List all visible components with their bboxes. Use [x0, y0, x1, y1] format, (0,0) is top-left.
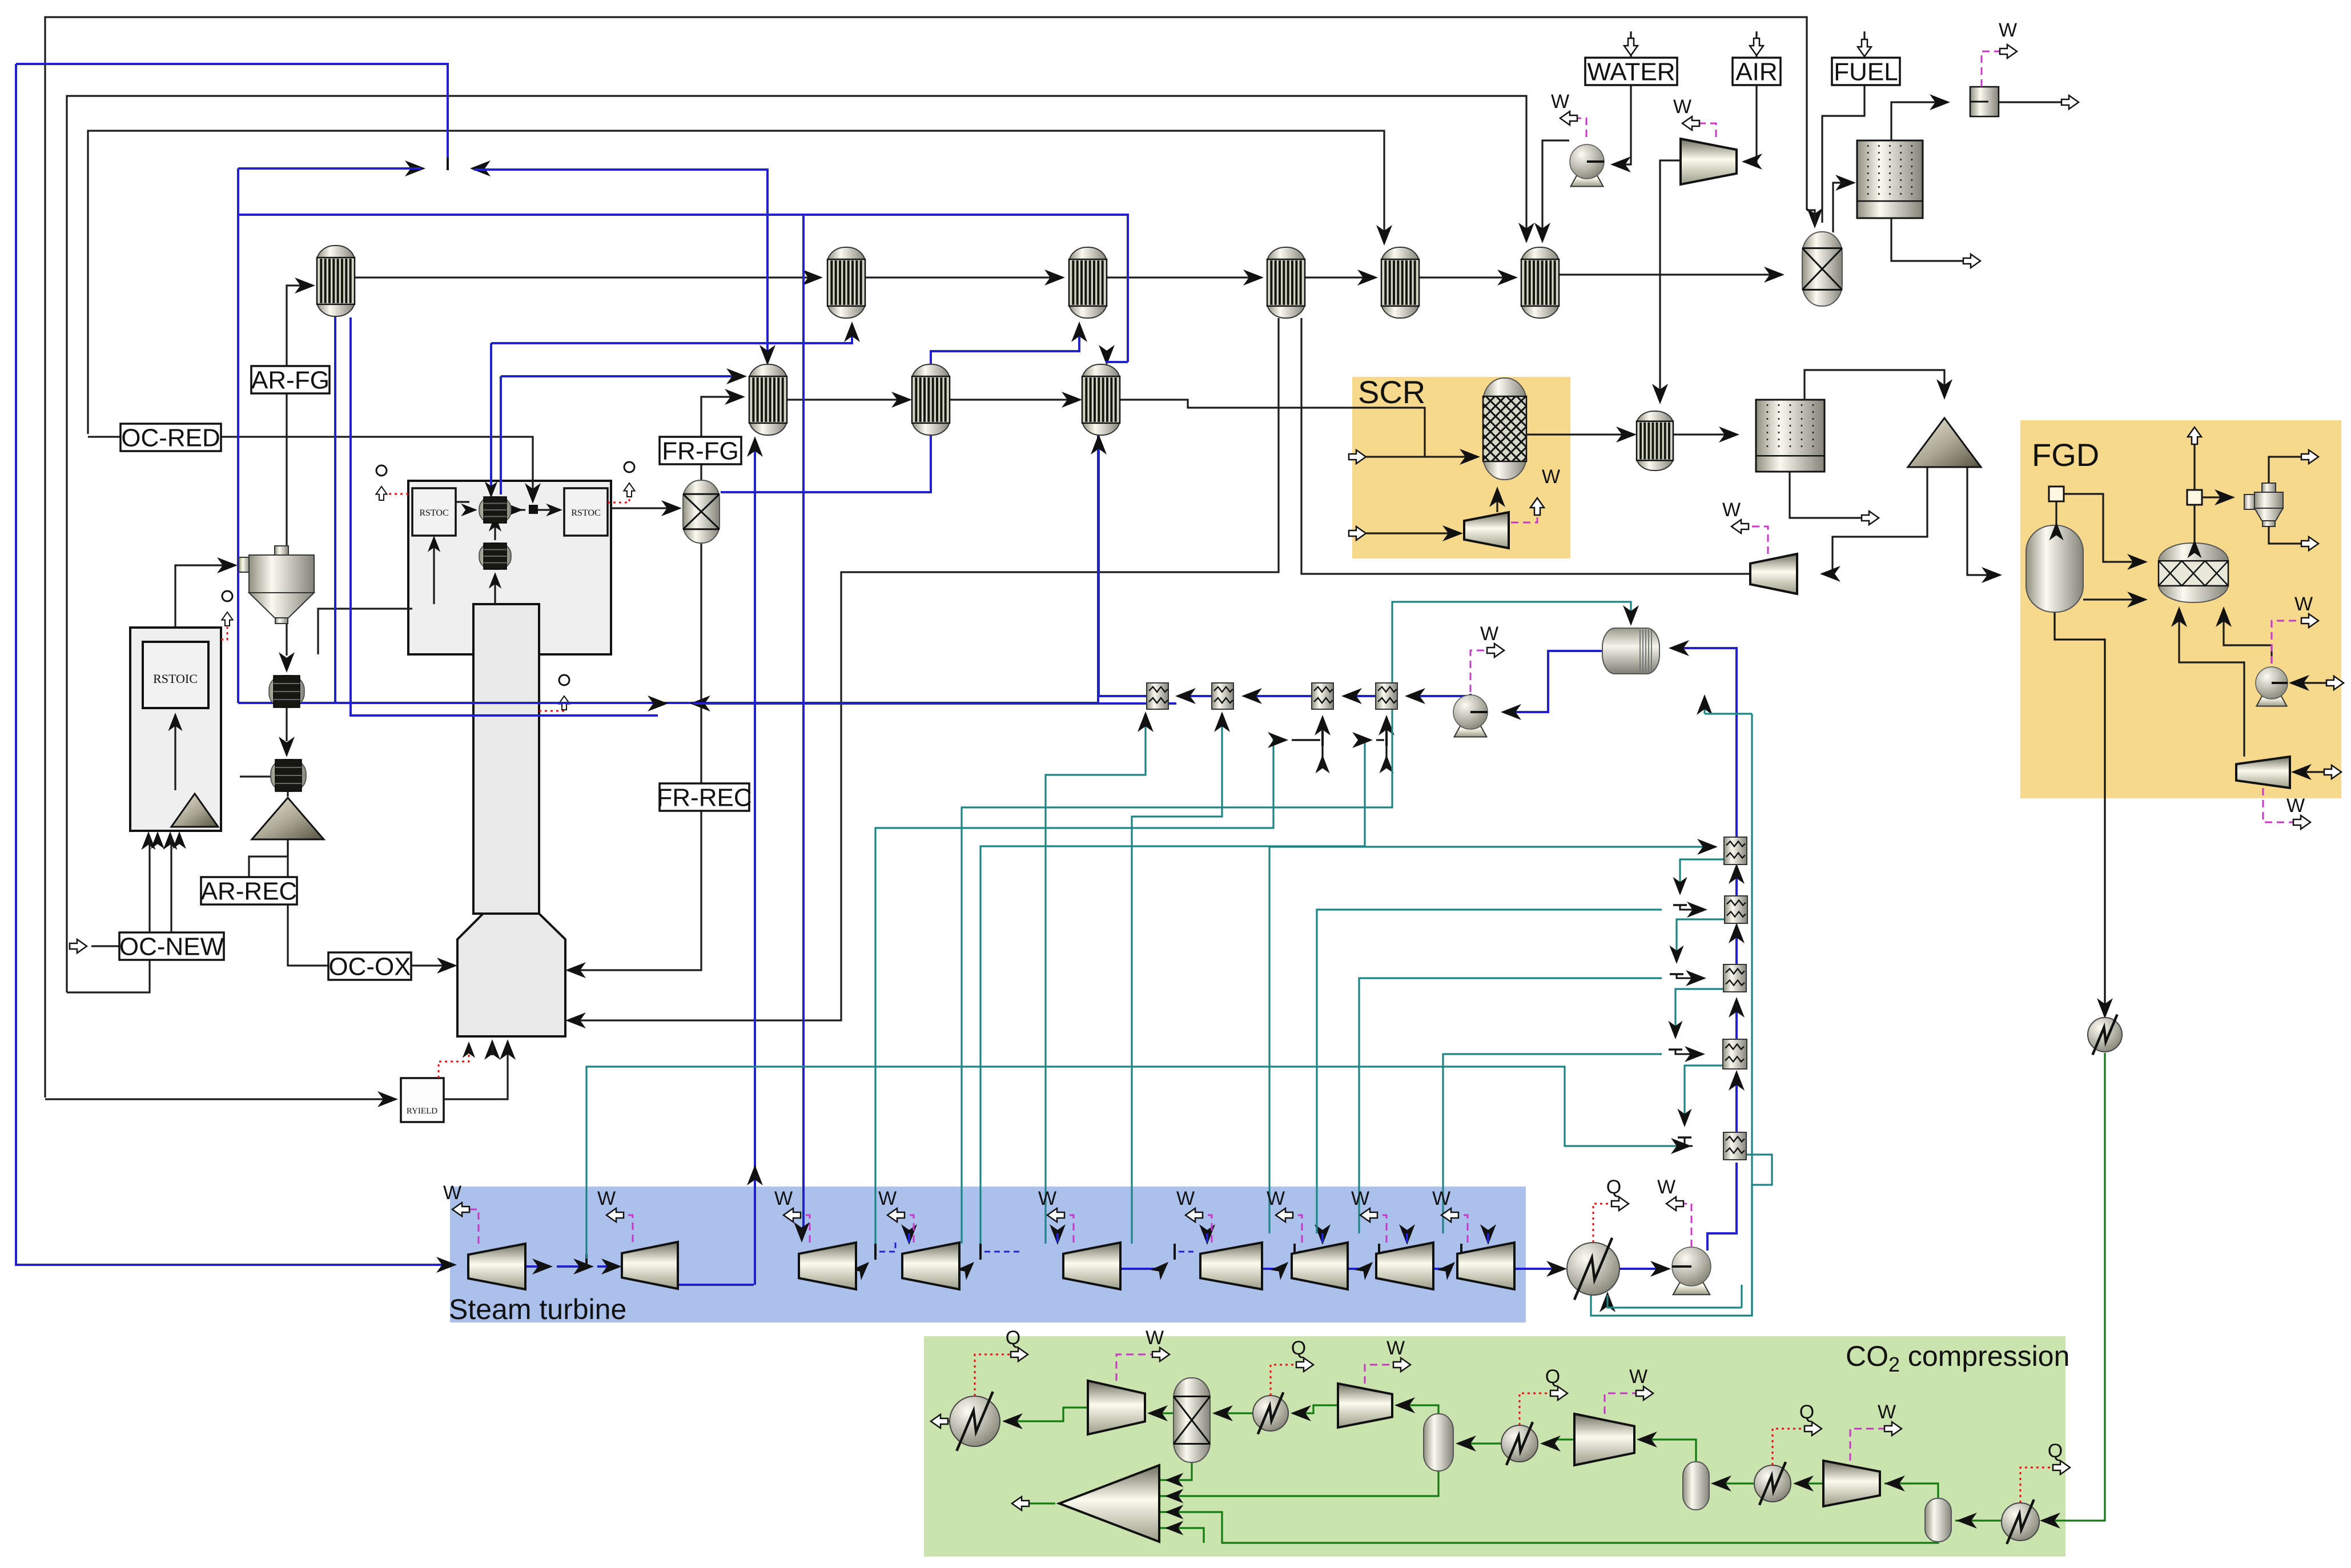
wire HX B1 bottom riser from T2	[754, 440, 756, 1285]
W CO2 compB	[1365, 1365, 1408, 1384]
teal drain fwhE to condenser loop	[1591, 1155, 1772, 1316]
wire condensate through LP heaters	[1409, 695, 1454, 697]
svg-text:W: W	[1673, 96, 1691, 118]
svg-text:CO2 compression: CO2 compression	[1846, 1340, 2069, 1376]
W indicator water pump	[1562, 118, 1586, 137]
wire HX A6 to fuel mixer vessel	[1559, 274, 1781, 275]
HP feedwater heater A	[1724, 837, 1747, 865]
svg-text:WATER: WATER	[1588, 58, 1675, 86]
wire B3 flue out to SCR reactor	[1120, 400, 1425, 457]
wire FR riser to reheater B1 upper inlet	[501, 375, 742, 377]
wire HX A4 bottom to FR recycle	[570, 318, 1279, 1020]
steam turbine T7	[1292, 1243, 1348, 1289]
CO2 multistage vent compressor	[1059, 1465, 1159, 1542]
svg-text:W: W	[1176, 1188, 1195, 1209]
FGD absorber top line	[2055, 501, 2057, 525]
Q CO2 cooler4	[1773, 1429, 1819, 1465]
coal mill cylinder	[1857, 140, 1923, 218]
svg-text:AIR: AIR	[1735, 58, 1777, 86]
CO2 cooler 2	[1253, 1392, 1288, 1434]
LP feedwater heater 4	[1376, 683, 1397, 709]
wire T3-T4 link	[856, 1268, 866, 1270]
svg-text:RYIELD: RYIELD	[407, 1107, 437, 1116]
wire AR flue through HX row	[355, 276, 818, 278]
CO2 KO drum 4	[1925, 1498, 1951, 1542]
feedwater pump	[1453, 695, 1488, 737]
steam turbine T4	[902, 1243, 959, 1289]
ESP cylinder	[1756, 400, 1824, 472]
wire cone left leg to ID fan	[1823, 467, 1927, 574]
svg-text:Steam turbine: Steam turbine	[449, 1293, 626, 1325]
wire blue y376 steam line	[238, 215, 1128, 362]
wire blue valve on 1232 line	[648, 695, 668, 711]
heat exchanger HX-B1 reheater	[749, 364, 787, 435]
wire RSTOC-L bottom feed	[433, 539, 435, 604]
green MCOMPR side lines	[1159, 1462, 1192, 1480]
wire mill bottom dust out	[1891, 218, 1969, 261]
wire cyclone inlet from AR top	[175, 565, 233, 628]
teal extraction to fwh2	[1132, 714, 1222, 1244]
W CO2 compD	[1850, 1429, 1899, 1461]
svg-text:W: W	[1657, 1176, 1675, 1198]
wire FR-FG vessel feed blues	[490, 343, 492, 494]
steam turbine T1	[468, 1244, 525, 1289]
AR RSTOIC box	[143, 642, 208, 708]
CO2 compressor B	[1338, 1384, 1392, 1428]
steam turbine T6	[1200, 1243, 1262, 1289]
teal extraction to HP fwhA	[1269, 847, 1713, 1233]
mini exchanger D3 in FR group	[479, 497, 511, 523]
FGD cyclone top out	[2269, 457, 2307, 483]
steam turbine T2	[622, 1242, 678, 1289]
teal extraction to fwh3 junction	[875, 740, 1284, 1244]
Q CO2 cooler2	[1271, 1365, 1311, 1396]
mini exchanger D4 in FR group	[479, 543, 511, 569]
HP feedwater heater E	[1723, 1132, 1746, 1160]
feedwater pump W	[1470, 650, 1502, 692]
teal extraction to HP fwhC	[1359, 978, 1662, 1233]
wire T8-T9 link	[1433, 1268, 1452, 1270]
wire mill top to crusher box	[1891, 102, 1946, 140]
wire k4 to HX A5	[88, 131, 1384, 434]
wire AR q indicator	[221, 627, 227, 640]
label box OC-RED	[120, 424, 221, 451]
svg-text:FR-REC: FR-REC	[657, 783, 751, 811]
label box AR-REC	[201, 877, 297, 904]
wire cond pump discharge to LP heaters stack	[1707, 1163, 1737, 1251]
green compA to cooler1	[1004, 1408, 1088, 1421]
wire k3 char recycle	[67, 96, 1526, 992]
svg-text:AR-REC: AR-REC	[201, 877, 298, 905]
FR RSTOIC box right	[564, 488, 608, 536]
W indicator ID fan	[1734, 526, 1768, 554]
wire FR column q1	[539, 710, 564, 712]
wire ESP top to splitter cone	[1805, 370, 1944, 400]
svg-text:W: W	[1722, 499, 1741, 521]
wire air compressor discharge to SCR HX	[1660, 160, 1681, 400]
wire AIR line	[1745, 83, 1757, 162]
FGD absorber side to oxidizer	[2083, 598, 2143, 600]
FGD sq2 to small cyclone	[2202, 496, 2231, 498]
FGD oxidizer feed square	[2187, 490, 2202, 505]
wire FR column top to hxdark2	[494, 576, 496, 604]
svg-text:W: W	[1146, 1327, 1164, 1349]
svg-text:W: W	[878, 1188, 897, 1209]
FGD highlighted region	[2020, 420, 2341, 798]
label box OC-OX	[328, 952, 411, 980]
svg-text:FUEL: FUEL	[1834, 58, 1898, 86]
svg-text:FGD: FGD	[2032, 437, 2099, 473]
teal extraction to fwh4 junction	[980, 740, 1368, 1244]
svg-text:RSTOIC: RSTOIC	[153, 672, 198, 686]
SCR reactor outlet to HX	[1526, 433, 1632, 435]
wire SCR HX to ESP	[1673, 433, 1735, 435]
wire T9 to condenser	[1514, 1268, 1562, 1270]
Q and W condenser	[1593, 1204, 1626, 1243]
FGD slurry pump	[2256, 667, 2288, 706]
wire B1 to B2	[787, 399, 907, 400]
svg-text:Q: Q	[1291, 1337, 1306, 1359]
wire AR-REC label to cone	[249, 842, 288, 877]
steam turbine T9	[1457, 1243, 1514, 1289]
wire AR-FG riser	[286, 392, 287, 555]
green MCOMPR outlet	[1022, 1502, 1055, 1504]
FGD fan inlet	[2294, 771, 2333, 773]
RYIELD decomposition box	[401, 1078, 444, 1122]
wire FUEL line	[1822, 85, 1864, 223]
label box AIR	[1733, 58, 1781, 85]
HP feedwater heater C	[1723, 964, 1746, 992]
HP feedwater heater D	[1723, 1039, 1747, 1069]
svg-text:W: W	[774, 1188, 793, 1209]
CO2 KO drum 2	[1424, 1414, 1453, 1471]
heat exchanger after air compressor	[1637, 411, 1673, 471]
wire ESP bottom ash out	[1790, 472, 1867, 518]
W indicator crusher	[1982, 51, 2008, 87]
green compD to cooler4	[1795, 1482, 1823, 1484]
FUEL source arrow	[1863, 31, 1865, 59]
FGD fan discharge to oxidizer	[2179, 610, 2244, 757]
flue gas splitter cone	[1908, 418, 1981, 467]
FR bottom wide section	[457, 914, 565, 1036]
FGD pump inlet	[2292, 682, 2336, 684]
svg-text:W: W	[443, 1182, 461, 1204]
wire FR-REC line	[570, 805, 701, 970]
Steam turbine highlighted region	[450, 1187, 1526, 1322]
svg-text:W: W	[1480, 623, 1498, 645]
svg-text:W: W	[1878, 1401, 1896, 1423]
green cooler5 to KO drum4	[1955, 1519, 2002, 1521]
green cooler1 outlet	[941, 1420, 950, 1422]
CO2 cooler 5	[2002, 1499, 2039, 1544]
heat exchanger HX-A5	[1381, 247, 1419, 318]
heat exchanger HX-B2	[912, 364, 950, 435]
arrows into AR bottom	[141, 831, 155, 850]
steam mixer junction	[447, 158, 449, 170]
wire economizer down leg	[238, 407, 1098, 703]
FR riser column	[473, 604, 539, 914]
teal drains in HP stack	[1680, 859, 1725, 891]
wire cyclone bottom chain	[286, 621, 287, 656]
green compB to cooler2	[1293, 1405, 1338, 1413]
wire steam drum blue down from HX B2	[721, 435, 931, 492]
AR reactor group box	[130, 628, 221, 831]
crusher box	[1970, 87, 1999, 116]
teal fwh4 junction tee	[1385, 731, 1388, 746]
W indicator SCR blower	[1511, 502, 1537, 522]
condensate pump	[1672, 1247, 1711, 1294]
teal fwh3 junction tee	[1321, 731, 1324, 746]
wire T3 inlet drop	[801, 1228, 803, 1238]
steam turbine T8	[1376, 1243, 1433, 1289]
wire k3 AR branch	[67, 836, 150, 992]
svg-text:W: W	[1387, 1337, 1405, 1359]
SCR reactor vessel	[1483, 378, 1526, 480]
wire T4-T5 link	[959, 1268, 971, 1270]
ID fan	[1750, 554, 1797, 594]
SCR blower discharge to reactor	[1496, 492, 1498, 512]
WATER source arrow	[1630, 31, 1631, 58]
CO2 cooler 3	[1501, 1422, 1538, 1465]
W cond pump	[1669, 1204, 1691, 1247]
wire main steam to T1	[16, 64, 448, 158]
air booster compressor	[1681, 139, 1737, 184]
green FGD drain down to CO2 train	[2055, 612, 2105, 1015]
steam turbine T5	[1063, 1243, 1120, 1289]
wire OC-OX to FR	[411, 964, 453, 966]
svg-text:W: W	[1542, 466, 1560, 488]
wire condenser to cond pump	[1619, 1268, 1666, 1270]
wire water pump to HX A6 top	[1542, 140, 1569, 240]
FGD fan	[2236, 757, 2290, 788]
heat exchanger HX-A6	[1521, 247, 1559, 318]
CO2 compression highlighted region	[924, 1336, 2065, 1557]
teal condenser bottom arrow	[1600, 1292, 1615, 1312]
wire hot reheat down to T3	[802, 215, 803, 1228]
wire AR-REC cone top to AR box	[240, 777, 288, 797]
green cooler2 to dryer	[1215, 1412, 1253, 1414]
svg-text:Q: Q	[1799, 1401, 1814, 1423]
AR internal riser	[174, 716, 176, 790]
heat exchanger HX-B3 economizer	[1082, 364, 1120, 435]
label box OC-NEW	[119, 932, 224, 960]
FGD oxidizer top to sq2	[2193, 505, 2195, 543]
wire blue loop x614	[351, 317, 658, 715]
wire FR-FG up to reheater B1	[701, 397, 741, 437]
label box WATER	[1585, 58, 1677, 85]
wire RYIELD feed k2	[45, 1098, 394, 1100]
CO2 cooler 4	[1754, 1462, 1791, 1505]
wire OC-NEW to AR	[170, 836, 172, 932]
SCR inlet stream 2	[1349, 526, 1366, 540]
wire RYIELD to FR	[444, 1042, 508, 1099]
heat exchanger HX-A4	[1267, 247, 1305, 318]
wire blue loop x587 from HX A1 bottom	[334, 315, 336, 703]
FR reactor group box	[408, 481, 611, 654]
CO2 cooler 1	[950, 1392, 1000, 1451]
steam turbine T3	[799, 1243, 856, 1289]
wire RSTOC-L to hxdark	[456, 501, 469, 502]
green v4 to compressor D	[1884, 1483, 1938, 1499]
wire FR q indicator	[381, 494, 408, 501]
label box FR-FG	[660, 437, 741, 464]
wire B2 to B3	[950, 399, 1078, 400]
teal up into deaerator bottom	[1703, 698, 1705, 714]
wire RYIELD q	[439, 1045, 469, 1078]
heat exchanger HX-A1 AR flue gas cooler	[317, 246, 355, 316]
wire T6-T7 link	[1262, 1268, 1285, 1270]
wire FR group to FR-FG vessel	[611, 507, 678, 509]
Q CO2 cooler5	[2020, 1468, 2068, 1503]
FGD pump discharge to oxidizer	[2224, 610, 2272, 664]
Q CO2 cooler3	[1520, 1393, 1565, 1425]
green compC to cooler3	[1542, 1440, 1574, 1444]
svg-text:Q: Q	[1006, 1327, 1020, 1349]
wire FR bottom arrows	[484, 1039, 500, 1060]
wire mixer right arm from reheater	[474, 170, 767, 362]
W indicator air compressor	[1685, 123, 1716, 137]
CO2 compressor C	[1574, 1414, 1634, 1465]
AR internal cone mixer	[171, 794, 218, 827]
CO2 dryer vessel with X	[1174, 1378, 1210, 1462]
wire T7-T8 link	[1348, 1268, 1369, 1270]
condenser	[1567, 1238, 1619, 1300]
wire FR cluster small square	[529, 505, 538, 514]
svg-text:Q: Q	[1545, 1366, 1560, 1388]
LP feedwater heater 1	[1147, 683, 1168, 709]
wire blue from B2 top riser	[931, 325, 1079, 365]
label box FUEL	[1832, 58, 1900, 85]
FGD oxidizer vessel	[2159, 543, 2228, 602]
wire mixer vessel top to mill	[1833, 183, 1852, 232]
HP feedwater heater B	[1725, 896, 1747, 923]
deaerator	[1602, 628, 1659, 674]
teal extraction to HP fwhD	[1443, 1054, 1662, 1233]
fuel mixer vessel with X	[1802, 232, 1842, 306]
svg-text:W: W	[1038, 1188, 1056, 1209]
wire OC-RED to FR	[221, 437, 533, 500]
svg-text:W: W	[1351, 1188, 1369, 1209]
wire WATER line	[1613, 83, 1631, 164]
label box AR-FG	[251, 366, 329, 393]
svg-text:W: W	[2294, 593, 2313, 615]
heat exchanger HX-A3	[1069, 247, 1107, 318]
SCR blower	[1464, 512, 1509, 548]
svg-text:W: W	[1629, 1366, 1647, 1388]
W steam turbines	[455, 1209, 479, 1244]
LP feedwater heater 2	[1212, 683, 1233, 709]
svg-text:OC-RED: OC-RED	[121, 424, 220, 452]
wire FR right RSTOC q indicator	[608, 498, 629, 502]
AR cyclone separator	[239, 546, 314, 624]
svg-text:W: W	[1999, 19, 2017, 41]
CO2 compressor A	[1088, 1381, 1145, 1434]
green dryer to compressor A	[1150, 1412, 1174, 1414]
teal deaerator feed from condensate	[1741, 1285, 1742, 1308]
FR RSTOIC box left	[412, 488, 456, 536]
green v3 to compressor C	[1639, 1440, 1696, 1462]
wire OC-OX from AR loop	[288, 839, 328, 966]
svg-text:W: W	[2286, 795, 2305, 817]
mini exchanger D2 below cyclone	[271, 759, 306, 791]
wire turbine blue links	[678, 1284, 754, 1286]
wire FW pump discharge	[1454, 694, 1470, 696]
wire OC-RED left stub	[88, 436, 120, 437]
wire FR-FG vessel bottom down	[700, 542, 702, 783]
W CO2 compC	[1605, 1393, 1651, 1414]
green cooler4 to v3	[1713, 1482, 1754, 1484]
teal extraction to deaerator	[962, 602, 1631, 1244]
FGD sq1 to oxidizer	[2064, 494, 2143, 562]
wire HXA2 blue feed from FR riser	[491, 325, 852, 343]
Q W CO2 cooler1 compA	[975, 1354, 1026, 1396]
svg-text:RSTOC: RSTOC	[571, 508, 600, 518]
wire ID fan recycle to HX A4 bottom	[1301, 318, 1750, 574]
svg-text:FR-FG: FR-FG	[662, 437, 738, 465]
FR-FG flash vessel with X	[683, 480, 720, 543]
teal extraction to HP fwhB	[1317, 910, 1662, 1233]
svg-text:W: W	[1267, 1188, 1285, 1209]
svg-text:AR-FG: AR-FG	[251, 366, 329, 394]
FGD cooler	[2088, 1015, 2122, 1055]
green v2 to compressor B	[1397, 1405, 1438, 1414]
CO2 compressor D	[1823, 1461, 1880, 1506]
SCR highlighted region	[1352, 377, 1570, 558]
wire crusher outlet	[1999, 101, 2067, 103]
CO2 KO drum 3	[1683, 1462, 1709, 1510]
svg-text:Q: Q	[1606, 1176, 1621, 1198]
label box FR-REC	[660, 783, 749, 811]
teal drains under fwh junctions	[1321, 746, 1323, 765]
FGD pump W	[2272, 621, 2316, 664]
svg-text:RSTOC: RSTOC	[419, 508, 448, 518]
svg-text:SCR: SCR	[1358, 374, 1425, 410]
heat exchanger HX-A2	[827, 247, 865, 318]
svg-text:W: W	[1432, 1188, 1450, 1209]
wire hxdark to square to RSTOC-R	[513, 509, 525, 510]
wire mixer left arm from economizer riser	[238, 167, 421, 170]
wire blue through HP heater stack	[1735, 1074, 1738, 1136]
AIR source arrow	[1755, 31, 1757, 58]
svg-text:OC-OX: OC-OX	[328, 952, 411, 980]
svg-text:OC-NEW: OC-NEW	[119, 932, 224, 960]
wire T5-T6 link	[1120, 1268, 1165, 1270]
wire deaerator to FW pump	[1505, 651, 1603, 712]
FGD cyclone bottom out	[2269, 526, 2307, 544]
teal extraction to LP heater E long line	[586, 1067, 1687, 1259]
wire cone right leg to FGD absorber	[1967, 467, 1998, 575]
FGD absorber feed square	[2049, 487, 2064, 501]
FGD absorber vessel	[2026, 525, 2083, 612]
svg-text:W: W	[597, 1188, 616, 1209]
LP feedwater heater 3	[1312, 683, 1333, 709]
svg-text:W: W	[1551, 91, 1569, 112]
wire FR-FG label stem	[700, 464, 702, 481]
wire main top loop k1	[45, 17, 1807, 1097]
FGD fan W	[2263, 788, 2301, 822]
SCR inlet stream 1	[1349, 450, 1366, 464]
svg-text:Q: Q	[2048, 1440, 2063, 1462]
green cooler3 to v2	[1458, 1442, 1501, 1444]
teal extraction to fwh1	[1046, 714, 1146, 1244]
AR-REC recycle cone mixer	[252, 798, 324, 839]
FGD small cyclone	[2244, 483, 2283, 526]
FGD vent line	[2193, 434, 2195, 490]
mini exchanger D1 below cyclone	[269, 676, 304, 707]
water feed pump	[1570, 144, 1604, 187]
